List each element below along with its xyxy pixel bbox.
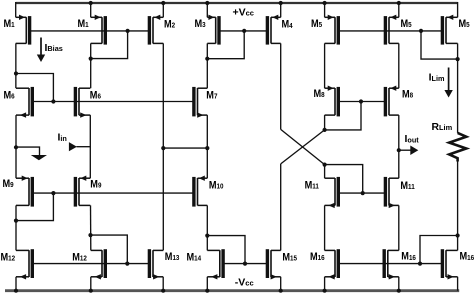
svg-text:Iin: Iin <box>58 133 67 144</box>
transistor M5 <box>385 15 411 45</box>
transistor M2 <box>149 15 175 45</box>
wire: gate bus M1a-M1b-M2 <box>31 30 151 32</box>
wire: gate bus M12a-M12b-M13 <box>32 263 150 265</box>
wire: gate bus M3-M4 <box>219 30 268 32</box>
wire: M9a source down <box>15 205 17 250</box>
transistor M6 <box>75 87 101 118</box>
transistor M3 <box>195 15 220 45</box>
wire: gate bus M9a-M9b-M10 <box>32 192 194 194</box>
wire: cross node down to M11a drain <box>324 165 326 179</box>
wire: gate bus M14-M15 <box>223 263 268 265</box>
wire: M16c source to -Vcc <box>457 277 459 291</box>
wire: M15 source to -Vcc <box>280 277 282 291</box>
node: M3 gate-drain tie <box>205 57 209 61</box>
Iin arrow <box>69 142 77 151</box>
node: cascode link left <box>161 146 165 150</box>
wire: Iout stub <box>399 149 411 151</box>
node: M6a drain-gate tie <box>14 71 18 75</box>
node: ground tap <box>14 145 18 149</box>
transistor M11 <box>305 177 339 208</box>
transistor M11 <box>385 177 414 208</box>
svg-text:RLim: RLim <box>432 122 453 133</box>
wire: M13 source to -Vcc <box>162 277 164 291</box>
+Vcc rail <box>16 2 458 4</box>
transistor M5 <box>311 15 338 45</box>
svg-text:+Vcc: +Vcc <box>233 6 254 18</box>
wire: M5b source to +Vcc <box>398 2 400 17</box>
node: M9a gate tie to drain <box>51 191 55 195</box>
wire: M16a source to -Vcc <box>324 277 326 291</box>
wire: gate bus M5a-M5b-M5c <box>338 30 443 32</box>
wire: gate bus M16a-M16b-M16c <box>338 263 443 265</box>
ground <box>31 155 47 160</box>
resistor RLim <box>449 133 466 162</box>
wire: resistor down to M16c drain <box>457 162 459 251</box>
svg-text:IBias: IBias <box>45 43 63 54</box>
wire: to ground symbol <box>16 147 40 155</box>
wire: M8b source down to output node <box>398 115 400 178</box>
transistor M16 <box>310 249 338 279</box>
transistor M6 <box>4 87 33 118</box>
node: M12b gate-drain tie <box>88 233 92 237</box>
wire: M4 drain down <box>280 43 282 129</box>
transistor M15 <box>267 249 297 279</box>
transistor M4 <box>267 15 292 45</box>
node: output <box>397 148 401 152</box>
wire: M5c drain down to resistor <box>457 43 459 132</box>
transistor M1 <box>4 15 30 45</box>
wire: M1 source to +Vcc <box>15 2 17 17</box>
transistor M9 <box>75 176 101 207</box>
wire: gate bus M6a-M6b-M7 <box>32 101 194 103</box>
wire: M6b source down to M9b drain (input node) <box>89 115 91 178</box>
node: M11a drain-gate tie <box>323 163 327 167</box>
transistor M14 <box>187 249 224 279</box>
node: M16c drain-gate tie <box>456 233 460 237</box>
wire: M16b source to -Vcc <box>398 277 400 291</box>
svg-text:ILim: ILim <box>429 73 445 84</box>
Iout arrow <box>410 146 418 156</box>
wire: M14 source to -Vcc <box>206 277 208 291</box>
wire: M5b drain down to M8b drain <box>398 43 400 88</box>
wire: cross diagonal M4 drain to M11a drain <box>281 129 325 164</box>
wire: M4 source to +Vcc <box>280 2 282 17</box>
wire: M3 drain down to M7 drain <box>206 43 208 88</box>
node: M8 mirror tie <box>323 128 327 132</box>
wire: gate bus M11a-M11b <box>338 192 386 194</box>
wire: M12b source to -Vcc <box>90 277 92 291</box>
wire: M2 drain long vertical to M13 drain <box>162 43 164 250</box>
wire: M6a source down to M9a drain <box>15 115 17 178</box>
node: M1b gate-drain tie <box>89 57 93 61</box>
transistor M7 <box>194 87 218 118</box>
wire: cross diagonal M8a drain to M15 drain <box>281 130 325 164</box>
wire: M12a source to -Vcc <box>15 277 17 291</box>
transistor M8 <box>385 86 413 117</box>
wire: M11b source down to M16b drain <box>398 205 400 250</box>
wire: M1b source to +Vcc <box>90 2 92 17</box>
node: M14 gate-drain tie <box>205 234 209 238</box>
wire: M5a drain down to M8a drain <box>324 43 326 88</box>
transistor M1 <box>78 15 106 45</box>
wire: M7 source down to M10 drain <box>206 115 208 178</box>
wire: M3 source to +Vcc <box>206 2 208 17</box>
wire: Iin stub <box>77 146 91 148</box>
transistor M16 <box>442 249 474 279</box>
node: M5c gate-drain tie <box>456 57 460 61</box>
wire: M5c source to +Vcc <box>457 2 459 17</box>
transistor M16 <box>384 249 416 279</box>
IBias arrow <box>40 38 42 56</box>
transistor M12 <box>72 249 105 279</box>
wire: M11a source down to M16a drain <box>324 205 326 250</box>
transistor M10 <box>194 176 224 207</box>
transistor M12 <box>1 249 33 279</box>
svg-text:Iout: Iout <box>405 134 420 145</box>
wire: M5a source to +Vcc <box>324 2 326 17</box>
wire: M10 source down to M14 drain <box>206 205 208 250</box>
ILim arrow <box>448 68 450 92</box>
wire: M1b drain down to M6b drain <box>90 43 92 88</box>
transistor M5 <box>442 15 469 45</box>
wire: gate bus M8a-M8b <box>338 101 386 103</box>
-Vcc rail <box>5 289 459 292</box>
wire: M8a source down to cross node <box>324 115 326 130</box>
wire: M1a drain down to M6a drain <box>15 43 17 88</box>
transistor M8 <box>314 86 339 117</box>
transistor M9 <box>3 176 33 207</box>
wire: M2 source to +Vcc <box>162 2 164 17</box>
wire: down to M15 drain <box>280 164 282 251</box>
transistor M13 <box>149 249 179 279</box>
svg-text:-Vcc: -Vcc <box>235 276 254 288</box>
wire: M9b source down to M12b drain <box>90 205 92 250</box>
